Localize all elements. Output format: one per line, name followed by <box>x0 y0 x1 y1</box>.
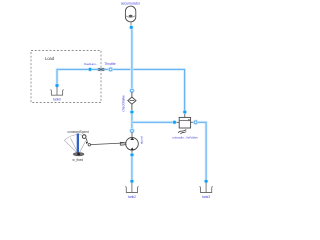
svg-text:tank0: tank0 <box>53 98 61 102</box>
node constantSpeed flange <box>88 144 90 146</box>
unloader relief valve <box>172 110 198 139</box>
wire accumulator to check valve (main vertical) <box>130 29 133 90</box>
svg-text:checkValve: checkValve <box>122 95 126 112</box>
svg-text:unloadin...liefValve: unloadin...liefValve <box>172 135 198 139</box>
pump <box>120 129 144 153</box>
wire tank0 to throttle to relief valve (top horizontal) <box>57 69 185 110</box>
accumulator <box>121 1 141 26</box>
constantSpeed source <box>64 130 89 162</box>
svg-text:fixedLam...: fixedLam... <box>84 62 98 66</box>
node relief valve right port <box>193 120 198 125</box>
node fixedLam port <box>88 67 92 71</box>
node accumulator port <box>129 25 133 29</box>
tank0 <box>50 83 63 101</box>
svg-text:pump: pump <box>140 136 144 144</box>
wire junction to relief valve left port <box>132 121 173 124</box>
wire relief valve right port to tank3 <box>197 122 206 180</box>
svg-text:tank2: tank2 <box>128 195 136 199</box>
throttle valve <box>98 62 116 71</box>
node throttle right port <box>108 67 113 72</box>
fixedLam restriction label <box>84 62 98 66</box>
svg-text:accumulator: accumulator <box>121 1 141 5</box>
svg-text:Throttle: Throttle <box>104 62 115 66</box>
node check valve bottom port <box>130 110 134 114</box>
svg-text:w_fixed: w_fixed <box>72 158 83 162</box>
tank2 <box>125 179 138 199</box>
wire check valve to pump <box>130 113 133 129</box>
shaft connection constantSpeed to pump <box>91 143 126 145</box>
node pump bottom port <box>130 153 134 157</box>
wire pump to tank2 <box>130 156 133 180</box>
node relief valve left port <box>172 120 176 124</box>
svg-text:tank3: tank3 <box>202 195 210 199</box>
tank3 <box>200 179 213 199</box>
check valve <box>122 88 136 112</box>
svg-text:constantSpeed: constantSpeed <box>68 130 89 134</box>
svg-text:Load: Load <box>45 56 55 61</box>
load subsystem dashed boundary <box>31 51 101 103</box>
